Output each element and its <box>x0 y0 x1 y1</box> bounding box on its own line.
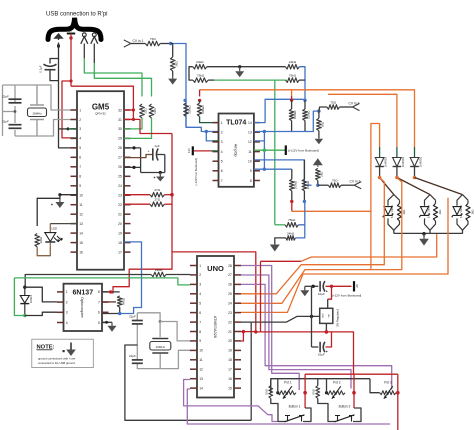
resistor R17 100kΩ <box>303 109 311 121</box>
wire: UNO pin23 orange <box>241 198 448 313</box>
svg-text:11: 11 <box>199 358 203 362</box>
diode D3 1N4001 <box>375 157 387 168</box>
wire: 75k green link <box>214 79 286 81</box>
svg-text:14: 14 <box>79 231 83 235</box>
wire: diode 1 cathode <box>379 167 381 178</box>
wire: potentiometer Pot 2 left to rail <box>325 391 328 394</box>
wire: 75k3 right <box>298 201 304 224</box>
wire: UNO pin22 gnd <box>241 316 320 322</box>
ground at CV2 clamp <box>315 138 324 144</box>
wire: green tail pin3 <box>68 128 77 130</box>
wire: cap2 left <box>312 346 319 348</box>
svg-text:5V: 5V <box>68 29 72 33</box>
ground (USB) at opto pin5 <box>108 322 117 332</box>
svg-text:220Ω: 220Ω <box>155 268 163 272</box>
potentiometer Pot 2 <box>327 381 346 399</box>
svg-text:25: 25 <box>118 175 122 179</box>
USB brace <box>48 18 101 40</box>
diode D5 1N4001 <box>410 157 422 168</box>
wire: pin13-pin12 link <box>254 132 265 141</box>
svg-text:GND: GND <box>312 389 316 395</box>
svg-text:2: 2 <box>79 118 81 122</box>
svg-text:6N137: 6N137 <box>72 290 93 297</box>
wire: crystal bottom rail <box>15 120 77 137</box>
wire: potentiometer Pot 2 red down to button <box>353 393 355 408</box>
svg-text:2kΩ: 2kΩ <box>470 210 474 215</box>
svg-text:5.1V Zener: 5.1V Zener <box>459 205 463 218</box>
wire: uno crystal top rail <box>137 313 160 322</box>
wire: pin21 to rail <box>243 331 255 333</box>
wire: diag to zener group 3 <box>415 178 463 195</box>
wire: zgroup down 3 <box>462 230 464 233</box>
capacitor C7 10uF <box>318 342 328 357</box>
svg-text:9: 9 <box>79 184 81 188</box>
diode D2 1N914 (opto input) <box>23 286 26 289</box>
svg-text:7: 7 <box>98 300 100 304</box>
resistor R12 24kΩ <box>285 60 299 69</box>
svg-text:22Ω: 22Ω <box>144 107 148 113</box>
wire: vcap right vertical <box>164 155 166 173</box>
wire: zener common ground rail <box>394 232 463 234</box>
wire: green tail into GM5 pin4 <box>70 137 77 139</box>
wire: opto pin5 gnd <box>102 321 112 323</box>
ground mid 24k <box>235 67 244 78</box>
capacitor C-usb 0.1uF <box>44 64 57 66</box>
svg-text:22pF: 22pF <box>129 354 136 358</box>
capacitor C4 22pF <box>129 315 143 324</box>
svg-text:GND: GND <box>322 313 324 318</box>
wire: pin9 blue <box>254 168 292 170</box>
svg-text:UNO: UNO <box>207 264 224 273</box>
ground below 24k3 <box>270 242 280 252</box>
wire: r16 leads <box>291 100 293 109</box>
svg-text:6: 6 <box>98 311 100 315</box>
svg-text:4: 4 <box>221 150 223 154</box>
IC 6N137 optocoupler <box>57 284 109 331</box>
svg-text:8: 8 <box>199 330 201 334</box>
wire: green tail diode 1 <box>379 147 381 158</box>
wire: zgroup down 2 <box>429 230 431 233</box>
wire: A0 red line <box>260 261 262 332</box>
svg-text:1N4001: 1N4001 <box>418 157 422 168</box>
svg-text:19: 19 <box>118 231 122 235</box>
svg-text:17: 17 <box>118 250 122 254</box>
svg-text:1: 1 <box>199 264 201 268</box>
wire: VCC to pin 31 <box>124 118 133 120</box>
svg-text:24kΩ: 24kΩ <box>289 60 297 64</box>
wire: green long vertical <box>274 80 276 225</box>
svg-text:100kΩ: 100kΩ <box>293 180 297 189</box>
svg-text:10: 10 <box>199 349 203 353</box>
svg-text:8: 8 <box>98 290 100 294</box>
wire: opto pin6 to node <box>102 307 120 313</box>
resistor R9 2kΩ <box>170 57 178 71</box>
wire: pin28 node <box>124 147 141 149</box>
svg-text:+: + <box>148 150 150 154</box>
wire: R4 right <box>164 203 172 205</box>
zener Z1 5.1V <box>384 207 392 215</box>
wire: pin10 to gnd node <box>60 194 77 196</box>
svg-text:AmpOp: AmpOp <box>234 144 238 157</box>
wire: diode 3 cathode <box>414 167 416 178</box>
wire: r17 bottom <box>304 121 306 132</box>
resistor R22 2kΩ <box>316 168 324 180</box>
wire: reg in stub <box>327 299 329 308</box>
wire: potentiometer Pot 1 red down to button <box>304 393 306 408</box>
svg-text:connected to the USB ground.: connected to the USB ground. <box>38 361 76 365</box>
wire: cap2 col <box>137 363 160 368</box>
resistor R3 27Ω <box>150 188 164 197</box>
wire: opto-anode to 220R line <box>25 275 151 288</box>
zener Z3 5.1V <box>453 207 461 215</box>
svg-text:100kΩ: 100kΩ <box>306 180 310 189</box>
svg-text:6: 6 <box>221 169 223 173</box>
resistor R6 220Ω <box>151 268 166 277</box>
wire: pot supply rail (black) <box>271 379 370 393</box>
resistor R20 100kΩ <box>290 179 298 191</box>
node: CV out 2 <box>395 176 399 180</box>
svg-text:100kΩ: 100kΩ <box>307 110 311 119</box>
wire: UNO pin24 orange <box>241 178 402 304</box>
svg-text:3: 3 <box>79 127 81 131</box>
wire: green to 75k3 <box>275 224 285 226</box>
svg-text:USB connection to R'pi: USB connection to R'pi <box>46 12 108 18</box>
wire: 24k3 left gnd <box>275 238 286 244</box>
wire: 2k bottom <box>172 71 174 76</box>
wire: GM5 pin3 to GND bus <box>59 128 69 130</box>
wire: r21 top <box>303 160 305 179</box>
svg-text:TL074: TL074 <box>226 120 246 127</box>
wire: orange rail B <box>200 90 415 147</box>
wire: pin23 to R3 <box>124 194 150 196</box>
resistor R8 75Ω <box>145 37 160 46</box>
svg-text:27Ω: 27Ω <box>154 198 160 202</box>
node: potentiometer Pot 2 right (red) <box>352 391 356 395</box>
svg-text:28: 28 <box>228 264 232 268</box>
svg-text:20: 20 <box>118 222 122 226</box>
wire: UNO pin25 orange <box>241 178 384 294</box>
wire: pot3 red to bottom edge <box>397 393 399 430</box>
svg-text:22pF: 22pF <box>2 120 9 124</box>
USB ground terminal <box>58 38 60 40</box>
svg-text:9: 9 <box>250 169 252 173</box>
potentiometer Pot 1 <box>278 381 296 399</box>
zener Z2 5.1V <box>421 207 429 215</box>
wire: UNO pin21/20 power <box>241 332 243 341</box>
svg-text:7: 7 <box>221 179 223 183</box>
svg-text:30: 30 <box>118 127 122 131</box>
potentiometer Pot 3 <box>380 381 396 399</box>
LED D1 <box>45 224 64 246</box>
svg-text:7: 7 <box>199 320 201 324</box>
svg-text:18: 18 <box>118 241 122 245</box>
wire: cap mid col <box>136 324 138 360</box>
resistor Rz2 2kΩ <box>433 203 437 221</box>
svg-text:5: 5 <box>221 160 223 164</box>
wire: r14 bottom blue <box>185 117 187 128</box>
svg-text:3: 3 <box>66 311 68 315</box>
svg-text:1µF: 1µF <box>155 144 160 148</box>
button Button 1 <box>271 399 311 422</box>
svg-text:24: 24 <box>228 302 232 306</box>
wire: CV1 to blue node <box>160 43 170 45</box>
wire: cap to +12V terminal <box>326 285 352 287</box>
svg-text:1: 1 <box>79 108 81 112</box>
wire: orange A-line rail <box>301 234 437 261</box>
wire: CV1 lead <box>131 43 146 45</box>
wire: diag to zener group 2 <box>397 178 430 195</box>
wire: diag to zener group 1 <box>380 178 394 195</box>
ground at CV1 divider <box>168 76 177 85</box>
wire: AREF branch <box>172 252 256 332</box>
svg-text:22: 22 <box>118 203 122 207</box>
wire: USB 5V down <box>70 38 72 86</box>
wire: USB D- to 22ohm resistor <box>84 58 142 97</box>
svg-text:6: 6 <box>199 311 201 315</box>
svg-text:2kΩ: 2kΩ <box>402 210 406 215</box>
svg-text:27Ω: 27Ω <box>154 188 160 192</box>
wire: blue vertical to pin9 <box>263 141 265 169</box>
svg-text:20: 20 <box>228 339 232 343</box>
svg-text:22Ω: 22Ω <box>153 107 157 113</box>
wire: 24k3 right <box>295 225 304 238</box>
svg-text:2kΩ: 2kΩ <box>319 171 323 177</box>
wire: vcap bottom <box>141 172 165 174</box>
svg-text:14: 14 <box>199 386 203 390</box>
svg-text:100kΩ: 100kΩ <box>188 105 192 114</box>
svg-text:22pF: 22pF <box>2 95 9 99</box>
svg-text:2: 2 <box>199 273 201 277</box>
wire: pin2 blue tail <box>212 131 219 133</box>
svg-text:CV in 2: CV in 2 <box>349 102 360 106</box>
wire: 75k2 right <box>299 79 305 81</box>
wire: USB D- lead <box>83 44 85 59</box>
wire: r15 leads <box>199 100 201 103</box>
svg-text:11: 11 <box>248 150 252 154</box>
svg-text:75kΩ: 75kΩ <box>289 74 297 78</box>
svg-text:11: 11 <box>79 203 83 207</box>
capacitor C3 1uF <box>148 144 165 161</box>
resistor R23 75Ω <box>328 179 341 188</box>
svg-text:5.1V Zener: 5.1V Zener <box>427 205 431 218</box>
resistor R14 100kΩ <box>184 103 192 117</box>
svg-text:75kΩ: 75kΩ <box>197 74 205 78</box>
resistor R-D- 22Ω <box>140 104 148 118</box>
svg-text:75kΩ: 75kΩ <box>288 218 296 222</box>
svg-text:8: 8 <box>250 179 252 183</box>
svg-text:[(-)12V from Busboard]: [(-)12V from Busboard] <box>288 149 319 153</box>
svg-text:16MHz: 16MHz <box>32 111 42 115</box>
wire: r17 leads <box>304 100 306 109</box>
svg-text:13: 13 <box>248 131 252 135</box>
power +12V at TL074 pin4 <box>192 146 194 155</box>
wire: cap1 col <box>136 313 138 321</box>
wire: A-line red part <box>261 260 302 262</box>
svg-text:A0: A0 <box>355 284 359 288</box>
resistor R4 27Ω <box>150 198 164 207</box>
wire: r21 bottom <box>303 191 305 202</box>
wire: CV3 lead2 <box>341 184 354 186</box>
svg-text:24kΩ: 24kΩ <box>196 60 204 64</box>
svg-text:26: 26 <box>228 283 232 287</box>
wire: cap column2 <box>14 106 16 123</box>
crystal Y2 16MHz <box>150 339 171 354</box>
svg-text:12: 12 <box>79 213 83 217</box>
wire: cap2 right <box>326 332 332 347</box>
svg-text:680Ω: 680Ω <box>121 297 125 305</box>
ground (USB) below C3 <box>154 173 165 182</box>
power -12V at TL074 pin11 <box>285 145 287 155</box>
wire: orange CV3 rail <box>292 211 371 269</box>
IC 5V regulator <box>320 308 340 327</box>
svg-text:7: 7 <box>79 165 81 169</box>
svg-text:32: 32 <box>118 108 122 112</box>
wire: USB D+ to 22ohm resistor <box>94 63 151 97</box>
wire: 330R bottom U <box>37 246 50 256</box>
svg-text:5: 5 <box>199 302 201 306</box>
svg-text:12V: 12V <box>187 148 191 153</box>
wire: zener group loop 3 <box>457 195 468 231</box>
wire: 5V rail left <box>256 331 327 333</box>
wire: opto pin8 node <box>102 291 120 293</box>
resistor pulldown potentiometer Pot 2 <box>317 379 319 386</box>
wire: 2k2 top <box>318 111 320 118</box>
svg-text:25: 25 <box>228 292 232 296</box>
svg-text:18: 18 <box>228 358 232 362</box>
wire: pot red rail <box>305 373 398 375</box>
svg-text:VIN: VIN <box>329 314 331 318</box>
svg-text:1: 1 <box>221 121 223 125</box>
node: GM5 VCC pins 32/31 <box>132 108 135 111</box>
wire: cap bracket bottom <box>50 70 59 81</box>
svg-text:GND: GND <box>265 389 269 395</box>
wire: red column <box>111 134 172 293</box>
svg-text:LED: LED <box>52 226 58 230</box>
wire: pin14 feedback up <box>254 99 305 122</box>
wire: 75k1 right black <box>208 79 214 81</box>
wire: crystal top lead <box>159 322 161 338</box>
svg-text:14: 14 <box>248 121 252 125</box>
wire: r15 bottom to pin1 <box>200 117 219 123</box>
wire: pin13 feedback line <box>254 111 319 131</box>
wire: UNO pin13 purple to button1 <box>184 380 278 422</box>
svg-text:22pF: 22pF <box>129 315 136 319</box>
wire: 5V rail right <box>326 332 353 374</box>
svg-text:Pot 2: Pot 2 <box>333 381 341 385</box>
svg-text:12: 12 <box>199 368 203 372</box>
wire: r20 bottom <box>291 191 293 202</box>
svg-text:3: 3 <box>221 140 223 144</box>
svg-text:5: 5 <box>98 321 100 325</box>
svg-text:15: 15 <box>228 386 232 390</box>
wire: r14 top tap <box>184 100 187 103</box>
wire: cap column3 <box>14 130 16 136</box>
wire: VCC to pin 32 <box>124 109 133 111</box>
svg-text:27: 27 <box>228 273 232 277</box>
wire: crystal left vertical <box>2 85 4 136</box>
resistor R24 75kΩ <box>285 218 298 227</box>
capacitor C1 22pF <box>2 95 22 103</box>
svg-text:+: + <box>326 290 328 294</box>
svg-text:2kΩ: 2kΩ <box>174 61 178 67</box>
resistor pulldown potentiometer Pot 1 <box>270 379 272 386</box>
connector CV in 2 <box>353 103 360 110</box>
svg-text:26: 26 <box>118 165 122 169</box>
wire: zener group loop 2 <box>425 195 436 231</box>
svg-text:17: 17 <box>228 368 232 372</box>
wire: UNO pin14 purple long bottom <box>187 389 390 424</box>
wire: crystal right to pin10 <box>160 350 190 368</box>
svg-text:10µF: 10µF <box>318 352 325 356</box>
node: pot3 right <box>396 391 400 395</box>
resistor R5 330Ω <box>35 233 43 247</box>
wire: CV3 U to diode1 <box>371 124 380 212</box>
wire: cap bracket to 5V/GND <box>50 59 59 64</box>
resistor R11 75kΩ <box>193 74 208 83</box>
svg-text:75Ω: 75Ω <box>332 179 338 183</box>
wire: zgroup down 1 <box>393 230 395 233</box>
wire: crystal to pin9 <box>160 322 190 341</box>
wire: +12V cap rail <box>305 285 319 287</box>
wire: GM5 pin18 blue to opto <box>120 242 142 314</box>
wire: cap column <box>14 85 16 103</box>
svg-text:2: 2 <box>66 300 68 304</box>
wire: orange drop to R16 <box>291 90 293 96</box>
wire: red drop <box>291 96 293 100</box>
wire: pin11 green <box>254 149 286 151</box>
svg-text:+: + <box>326 350 328 354</box>
svg-text:23: 23 <box>228 311 232 315</box>
resistor R10 24kΩ <box>193 60 207 69</box>
wire: r22 bottom <box>317 180 319 185</box>
svg-text:Optocoupler: Optocoupler <box>80 297 84 318</box>
svg-text:27: 27 <box>118 156 122 160</box>
svg-text:31: 31 <box>118 118 122 122</box>
resistor R18 2kΩ <box>317 118 325 130</box>
svg-text:10: 10 <box>79 194 83 198</box>
wire: 5V rail to 27R column <box>133 119 172 133</box>
svg-text:ATMEGA328: ATMEGA328 <box>213 316 217 338</box>
wire: green TX line <box>14 278 190 285</box>
svg-text:16MHz: 16MHz <box>156 345 166 349</box>
wire: USB D+ lead <box>93 44 95 64</box>
resistor R21 100kΩ <box>302 179 310 191</box>
svg-text:10: 10 <box>248 160 252 164</box>
wire: red to orange CV3 rail <box>291 201 293 211</box>
svg-text:23: 23 <box>118 194 122 198</box>
wire: CV3 lead <box>318 184 329 186</box>
wire: 2k2 bottom <box>318 131 320 139</box>
node: CV out 3 <box>413 176 417 180</box>
wire: diode bottom to opto pin3 <box>25 312 57 315</box>
svg-text:Button 2: Button 2 <box>339 404 351 408</box>
wire: 220R to UNO pin2 <box>166 274 190 276</box>
svg-text:1: 1 <box>66 290 68 294</box>
svg-text:8: 8 <box>79 175 81 179</box>
wire: r20 top <box>291 169 293 179</box>
wire: 5V branch to pin4 <box>62 81 71 138</box>
resistor R-D+ 22Ω <box>149 104 157 118</box>
svg-text:100kΩ: 100kΩ <box>201 105 205 114</box>
note box <box>32 339 94 367</box>
wire: pin27 to cap <box>124 155 152 158</box>
svg-text:1N4001: 1N4001 <box>401 157 405 168</box>
wire: UNO pin26 purple <box>241 284 392 389</box>
resistor R16 100kΩ <box>289 109 297 121</box>
svg-text:QFN-32: QFN-32 <box>95 112 106 116</box>
power +12V busboard terminal <box>353 281 355 291</box>
wire: gnd rail up to reg gnd <box>250 323 252 421</box>
